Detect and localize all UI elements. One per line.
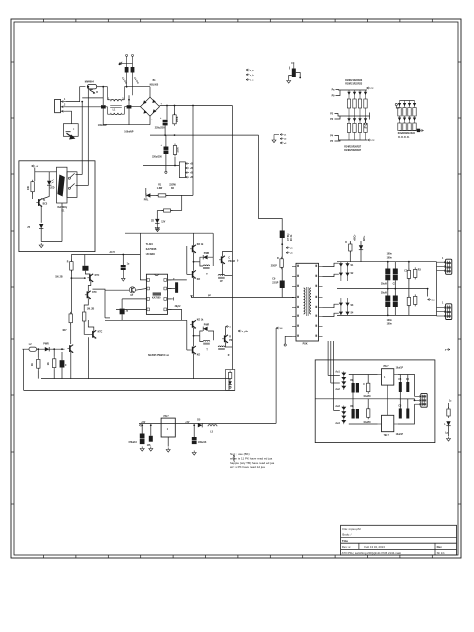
wire C13 top stub	[122, 255, 124, 266]
wire Q4 emitter down	[88, 337, 90, 378]
filter labels 100n top2	[387, 257, 393, 259]
junction box3 mid	[414, 400, 416, 402]
wire C14 down	[121, 314, 123, 320]
label Lp right	[445, 433, 448, 435]
C21 label	[404, 270, 408, 272]
svg-text:R20R21R22R23: R20R21R22R23	[345, 84, 363, 86]
D11 label	[197, 420, 201, 422]
header J1 pin label 3	[190, 173, 193, 175]
wire totem out lower	[194, 335, 200, 337]
filter capacitor C22	[385, 296, 391, 308]
junction C1 on N wire	[102, 106, 104, 108]
wire C36 top	[150, 425, 152, 436]
array1 column 3 resistor lower	[358, 123, 361, 140]
wire IC right drop	[212, 233, 214, 257]
net arrow a	[286, 247, 293, 250]
DB label	[351, 305, 355, 307]
X-capacitor C1	[101, 105, 106, 108]
capacitor C14	[120, 309, 125, 315]
C15 label	[173, 279, 175, 281]
D6 label PWR	[204, 253, 210, 255]
wire aux to 78L05	[139, 422, 276, 424]
svg-text:pri: pri	[208, 295, 211, 297]
array2 column 3 resistor	[408, 108, 411, 117]
title block file name text	[342, 527, 361, 531]
startup resistor R3	[156, 194, 168, 197]
relay K1 coil body	[57, 167, 68, 203]
wire long under IC	[105, 319, 187, 321]
notes line 1	[230, 452, 250, 456]
wire reg2 out	[398, 404, 415, 424]
T2 label	[206, 274, 208, 276]
svg-text:+5V: +5V	[141, 422, 146, 424]
wire C20 stub bot	[394, 280, 396, 288]
wire caps col stub8	[407, 399, 409, 409]
wire totem out	[194, 261, 200, 263]
junction col2 base	[84, 277, 86, 279]
Y-cap C3 label	[121, 77, 127, 85]
svg-text:Rev: Rev	[437, 545, 443, 549]
wire N bottom rail	[103, 124, 129, 126]
svg-text:KTC: KTC	[98, 332, 103, 334]
svg-text:D24D25D26D27: D24D25D26D27	[344, 149, 362, 152]
ground C36	[149, 447, 153, 452]
array1 pin label P9	[332, 96, 336, 98]
wire caps col stub3	[399, 375, 401, 383]
junction R1 top	[174, 105, 176, 107]
wire R4 right	[171, 210, 182, 212]
wire C1 to N rail	[102, 109, 104, 125]
wire rail to X2	[436, 262, 438, 271]
C27 value	[363, 396, 371, 398]
svg-text:PKGR: PKGR	[228, 261, 235, 263]
svg-text:1K: 1K	[48, 362, 50, 365]
R4 designator	[171, 188, 175, 190]
TR1 label POK	[303, 344, 308, 346]
wire C2 bottom	[128, 109, 130, 125]
ground right chain	[447, 437, 451, 442]
notes line 4	[230, 465, 265, 469]
NTC label t	[73, 128, 74, 131]
junction startup top	[192, 105, 194, 107]
svg-text:78L?: 78L?	[163, 416, 169, 418]
IC alt name TL494	[146, 243, 154, 246]
wire mid to X4	[399, 399, 415, 401]
svg-text:78L?: 78L?	[383, 366, 389, 368]
R4 value 22/2W	[169, 185, 176, 187]
array1 column 2 resistor lower	[353, 123, 356, 140]
C5 plus mark	[160, 118, 162, 120]
svg-text:22/1P: 22/1P	[272, 283, 278, 285]
R16 label	[48, 362, 50, 365]
svg-text:Au3: Au3	[335, 405, 340, 408]
capacitor C9 designator	[291, 63, 295, 65]
array2 column 3 resistor lower	[408, 123, 411, 131]
wire long rail A	[41, 378, 229, 380]
IC4 cap label	[396, 434, 404, 436]
svg-text:100n: 100n	[387, 320, 393, 322]
net arrow a-c	[428, 298, 436, 301]
svg-text:Au2: Au2	[335, 388, 340, 391]
choke L1 pin 1	[108, 99, 110, 101]
resistor R12	[69, 312, 72, 325]
wire sec feed 1	[327, 341, 329, 376]
driver transistor Q10	[190, 346, 196, 354]
svg-text:Au1: Au1	[335, 371, 340, 374]
wire R16 bottom	[53, 370, 55, 379]
wire totem bracket	[186, 246, 188, 274]
output connector X3	[446, 304, 452, 320]
DA label	[351, 265, 355, 267]
svg-text:10u/1P: 10u/1P	[396, 367, 404, 369]
wire D1 to R3	[150, 194, 158, 196]
regulator section box	[315, 360, 435, 443]
array2 column 1 diode	[398, 101, 401, 108]
R12 label 4K7	[62, 329, 67, 332]
primary return label	[208, 295, 211, 297]
C20 value	[393, 284, 397, 286]
array2 column 2 resistor	[403, 108, 406, 117]
capacitor C36	[149, 436, 153, 442]
svg-text:s_y2a: s_y2a	[242, 331, 249, 333]
Q7 label	[197, 279, 201, 281]
R3 designator	[158, 185, 162, 187]
svg-text:ZD: ZD	[151, 221, 154, 223]
filter capacitor C20	[392, 269, 398, 281]
wire C23 stub top	[394, 289, 396, 296]
junction col1	[71, 277, 73, 279]
wire pin5 to lower bracket	[168, 309, 182, 320]
wire DC+ rail	[160, 105, 233, 107]
wire bracket to Q10 base	[187, 349, 190, 351]
wire R15 top	[37, 349, 39, 357]
title block row lines	[341, 538, 457, 555]
C9 right wire	[296, 73, 300, 78]
regulator IC4 body	[382, 415, 394, 431]
svg-text:PWR: PWR	[204, 325, 210, 327]
resistor R21 in box	[228, 371, 231, 381]
wire T1 down	[40, 206, 42, 223]
wire bracket to Q7 base	[187, 273, 190, 275]
transistor Q5	[67, 345, 73, 353]
wire startup feed	[192, 106, 194, 196]
wire R16 top	[53, 349, 55, 357]
svg-text:KBL005: KBL005	[150, 84, 159, 86]
junction mid branch	[427, 288, 429, 290]
C27 label	[363, 384, 365, 386]
array1 mid pin 1	[335, 114, 343, 117]
capacitor C31	[399, 382, 402, 392]
net stub label c	[246, 79, 254, 82]
array1 column 4 resistor lower	[364, 123, 367, 140]
diode D5 PWR	[45, 347, 49, 351]
array1 mid pin circle	[364, 123, 366, 125]
TR1 aux pin circle	[284, 344, 286, 346]
wire relay contact 1 out	[76, 174, 83, 176]
array2 left pin wire	[396, 106, 399, 108]
D7 label PWR	[204, 325, 210, 327]
array1 column 4 diode	[364, 90, 367, 99]
array2 left pin circle	[395, 103, 397, 105]
net arrow Q11 top	[226, 325, 232, 328]
array1 left pin 1	[336, 89, 343, 92]
wire C2 top	[128, 95, 130, 105]
junction mid rail R1	[174, 134, 176, 136]
startup diode D1	[146, 193, 150, 197]
wire R10 bottom	[32, 192, 34, 199]
filter capacitor C19	[385, 269, 391, 281]
filter cap C24	[407, 295, 410, 307]
driver transistor Q7	[190, 270, 196, 278]
LED D3 label	[50, 188, 55, 190]
wire C6 top	[165, 135, 167, 146]
array1 top labels D	[345, 80, 363, 82]
wire R3 to corner	[166, 194, 193, 196]
filter resistor R25	[414, 294, 417, 306]
connector X1 pin 1 label	[64, 99, 66, 101]
ground small cluster	[272, 138, 276, 143]
ground at IC top rail	[156, 227, 160, 232]
svg-text:wz: s PK have read 1d jua: wz: s PK have read 1d jua	[230, 465, 265, 469]
wire N from X1 to choke	[66, 106, 108, 108]
resistor R13	[83, 310, 86, 323]
IC4 pin stubs	[378, 399, 398, 424]
svg-text:150K: 150K	[177, 147, 179, 153]
wire PWR rail	[22, 348, 64, 350]
IC U2 internal label	[153, 292, 161, 295]
capacitor C37	[191, 437, 197, 444]
NTC thermistor symbol	[66, 132, 75, 139]
Y-cap C4 label	[133, 77, 140, 85]
wire C19 stub bot	[387, 280, 389, 288]
junction C13 tap	[122, 254, 124, 256]
LED D3 arrows	[52, 180, 54, 184]
junction mid rail C5	[164, 134, 166, 136]
wire C5 bottom	[164, 125, 166, 135]
gnd mark pin6	[168, 297, 174, 300]
svg-text:+B/C+: +B/C+	[355, 234, 357, 241]
svg-text:12V: 12V	[161, 222, 166, 224]
array2 out blob	[417, 129, 420, 132]
array1 column 2 diode lower	[353, 116, 356, 123]
array1 bottom pin 2	[335, 140, 341, 141]
bulk capacitor C6	[163, 147, 169, 155]
svg-text:KD 1k: KD 1k	[197, 320, 204, 322]
svg-text:+B: +B	[190, 168, 193, 170]
junction bridge out	[166, 105, 168, 107]
junction rail r1	[387, 261, 389, 263]
junction C2 top	[128, 99, 130, 101]
junction C21 top	[408, 261, 410, 263]
stack label Au4	[335, 422, 340, 425]
svg-text:Feb 13 34, 2013: Feb 13 34, 2013	[364, 545, 385, 549]
L3 label	[210, 431, 213, 433]
IC alt name KA7500B	[146, 248, 157, 251]
array2 column 4 diode lower	[413, 116, 416, 123]
wire GND mid rail	[337, 288, 428, 290]
filter labels 100n top	[387, 254, 393, 256]
Q9 label	[197, 320, 204, 322]
wire Q6 collector up	[193, 233, 195, 245]
wire caps col stub6	[367, 399, 369, 409]
C33 label	[398, 406, 402, 408]
D1 label PRL	[144, 199, 149, 201]
drawing frame inner border	[14, 22, 458, 555]
net arrow below C13	[122, 270, 126, 281]
svg-text:C? 50y: C? 50y	[288, 233, 290, 241]
wire staircase bottom	[105, 317, 110, 319]
wire C22 stub bot	[387, 307, 389, 315]
capacitor C26	[356, 383, 359, 393]
small cluster arrow 3	[280, 142, 287, 145]
ground C37	[192, 451, 196, 456]
svg-text:25/1P: 25/1P	[271, 265, 277, 267]
wire snubber path	[259, 135, 283, 298]
wire C6 bottom	[165, 154, 167, 171]
C9 left wire	[289, 76, 292, 79]
junction rail r3	[387, 315, 389, 317]
driver transistor Q9	[190, 320, 196, 328]
array1 bottom labels R	[344, 145, 362, 148]
array1 column 1 resistor lower	[347, 123, 350, 140]
array2 bottom rail	[400, 130, 415, 132]
pin circle in zener box	[229, 386, 231, 388]
wire pin4 stub	[116, 308, 146, 310]
svg-text:D. D. D. D.: D. D. D. D.	[398, 137, 409, 139]
net stub label b	[246, 74, 254, 77]
array1 column 2 resistor	[353, 99, 356, 116]
C15 value label	[175, 306, 181, 308]
78L05 inside pin	[167, 429, 169, 431]
label +5VSB vertical	[234, 454, 236, 462]
ground C35	[140, 447, 144, 452]
wire relay coil down	[61, 203, 63, 242]
wire C22 stub top	[387, 289, 389, 296]
bridge minus mark	[152, 120, 153, 122]
title block TBL label	[342, 539, 348, 543]
transistor T1	[36, 199, 42, 207]
wire sec snubber drop 1	[349, 241, 351, 262]
wire feed3 to stack2	[334, 410, 340, 412]
drive loop lower	[200, 331, 214, 340]
bridge B1 type KBL005	[150, 84, 159, 86]
R24 label	[418, 270, 422, 272]
wire caps col stub4	[407, 375, 409, 383]
wire left drop	[23, 349, 25, 390]
wire D2 to gnd	[156, 223, 158, 225]
title block body text	[342, 532, 351, 536]
wire caps col stub5	[352, 399, 354, 409]
TR1 pin number fuzz	[297, 265, 317, 337]
wire C24 stub bot	[408, 305, 410, 315]
array1 column 4 diode lower	[364, 116, 367, 123]
wire mains switched 2	[87, 87, 89, 186]
wire primary return	[191, 296, 294, 298]
net label lower drive	[238, 330, 249, 333]
svg-text:79L?: 79L?	[384, 435, 390, 437]
wire fuse out	[97, 86, 108, 88]
IC U2 right pin stubs	[168, 280, 172, 310]
C17 label2	[291, 234, 293, 241]
svg-text:+5V: +5V	[185, 422, 190, 424]
C12 label	[65, 365, 67, 367]
regulator 78L05 body	[161, 418, 175, 437]
NTC thermistor box	[63, 124, 78, 137]
svg-text:1K: 1K	[32, 363, 34, 366]
transistor Q4	[90, 330, 96, 338]
svg-text:TL494: TL494	[146, 243, 154, 246]
svg-text:35y/9: 35y/9	[381, 284, 387, 286]
svg-text:1M_2B: 1M_2B	[55, 276, 63, 278]
wire box1 left rail	[34, 168, 36, 182]
PWM note text	[148, 355, 170, 357]
net label 0 left	[237, 261, 239, 263]
array1 mid bracket	[365, 113, 370, 117]
capacitor C29	[356, 409, 359, 419]
stack label Au2	[335, 388, 340, 391]
TR1 right pins	[319, 267, 323, 337]
C19 value	[381, 284, 387, 286]
Q6 label	[197, 244, 204, 246]
svg-text:LED: LED	[50, 188, 55, 190]
svg-text:1P: 1P	[220, 281, 223, 283]
Q8 label PKGR2	[228, 261, 235, 263]
capacitor C25	[352, 383, 355, 393]
resistor R22	[280, 257, 283, 269]
main transformer TR1 body	[296, 263, 319, 341]
varistor label	[96, 92, 98, 94]
X2 pin1 label	[442, 258, 444, 260]
array1 bottom pin label2	[330, 141, 334, 143]
title block rev cell	[342, 545, 352, 549]
resistor R15	[37, 357, 40, 370]
wire col2 top	[84, 255, 86, 266]
wire 78L05 gnd pin	[167, 437, 169, 447]
R10 value	[28, 185, 30, 190]
drive loop upper	[200, 257, 213, 266]
wire C20 stub top	[394, 262, 396, 269]
wire bracket to Q12	[105, 289, 129, 291]
T2b label	[206, 350, 208, 352]
wire HV rail drop	[231, 106, 233, 370]
wire pin3 long	[122, 298, 146, 300]
wire col1 bottom	[70, 323, 72, 344]
output connector X4	[421, 393, 427, 407]
wire pin7 to C15	[168, 288, 176, 290]
regulator IC3 body	[382, 369, 394, 385]
diode D7 PWR	[203, 327, 207, 331]
notes line 2	[230, 457, 272, 461]
svg-text:+B: +B	[190, 177, 193, 179]
svg-text:KTC: KTC	[95, 275, 100, 277]
wire Q10 emitter down	[193, 353, 195, 378]
LED D10 right	[446, 421, 450, 425]
array2 column 2 resistor lower	[403, 123, 406, 131]
array1 column 4 resistor	[364, 99, 367, 116]
array2 column 1 diode lower	[398, 116, 401, 123]
aux in arrow	[139, 424, 141, 426]
array1 mid bracket b	[369, 116, 371, 120]
array1 bottom pin label	[330, 135, 334, 138]
svg-text:10u/50: 10u/50	[363, 422, 371, 424]
wire zener to bottom	[40, 229, 42, 242]
zener D4	[39, 224, 43, 228]
wire staircase down	[104, 290, 106, 318]
array1 column 3 diode lower	[358, 116, 361, 123]
Y-capacitor C4	[131, 67, 135, 73]
wire R15 bottom	[37, 370, 39, 378]
wire lower bracket	[186, 320, 188, 350]
